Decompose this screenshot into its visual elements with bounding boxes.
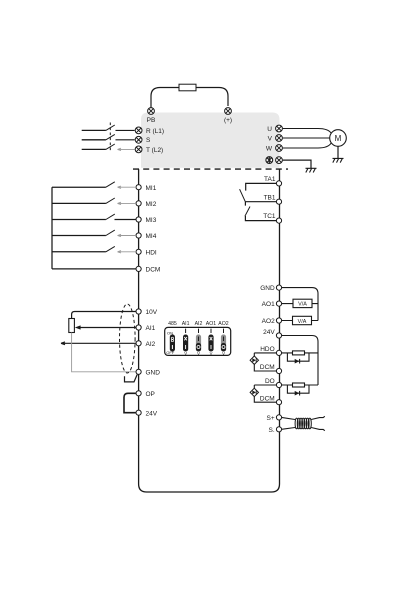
V/A box AO1 [293,299,312,307]
svg-text:AI1: AI1 [146,325,156,332]
svg-text:V: V [197,351,200,356]
diode branch HDO [287,353,309,361]
DIP slider AI1 [183,335,188,352]
optocoupler DO (diamond) [250,388,258,396]
wire W to motor [283,143,331,148]
terminal AO2 [276,318,281,323]
svg-text:PB: PB [147,117,156,124]
terminal S- [276,427,281,432]
svg-text:T (L2): T (L2) [146,147,163,154]
wire pot to GND [72,333,136,372]
wire GND (right) [282,288,319,321]
svg-text:GND: GND [146,369,161,376]
jumper OP to 24V [124,393,136,412]
terminal 10V [136,309,141,314]
ground (drive) [306,168,317,172]
terminal AO1 [276,301,281,306]
svg-text:24V: 24V [263,329,275,336]
wire twisted pair ends [311,416,325,430]
svg-text:AI2: AI2 [146,341,156,348]
wire 10V [72,312,136,319]
DIP slider AO2 [221,335,226,352]
terminal R(L1) [135,127,142,134]
optocoupler HDO (diamond) [250,356,258,364]
svg-text:AO1: AO1 [206,321,216,327]
wire S+ [282,417,296,419]
svg-text:DCM: DCM [146,267,161,274]
breaker blade R [106,125,115,130]
svg-text:AI1: AI1 [182,321,190,327]
terminal MI1 [136,185,141,190]
diode DO [295,391,300,396]
wire MI2 [52,202,106,204]
wire PB to (+) via brake resistor [151,88,228,108]
terminal TA1 [276,181,281,186]
terminal PB [148,108,155,115]
svg-text:TC1: TC1 [263,213,276,220]
svg-text:MI2: MI2 [146,201,157,208]
wire HDO line [254,352,318,354]
svg-text:HDI: HDI [146,249,157,256]
svg-text:DCM: DCM [260,364,275,371]
DIP slider 485 [170,335,175,352]
svg-text:S: S [146,137,151,144]
svg-text:M: M [335,134,342,143]
terminal S [135,136,142,143]
PE symbol [266,157,273,164]
svg-text:R (L1): R (L1) [146,128,164,135]
relay wire TB1 [245,202,276,206]
svg-text:U: U [267,126,272,133]
wire phase S [82,139,106,141]
switch HDI [106,246,115,251]
svg-text:V/A: V/A [298,302,307,308]
wire AI1 with wiper arrow [81,327,136,329]
wire V to motor [283,137,330,139]
svg-text:AO1: AO1 [262,301,275,308]
terminal W [276,145,283,152]
breaker blade S [106,134,115,139]
DIP slider AO1 [208,335,213,352]
svg-text:V: V [268,136,273,143]
wire R to terminal [116,129,135,131]
wire motor to ground [337,146,339,158]
terminal MI2 [136,201,141,206]
motor M [330,130,347,147]
resistor HDO load [293,351,305,355]
terminal HDI [136,249,141,254]
svg-text:MI1: MI1 [146,185,157,192]
shield drain wire [125,375,138,382]
relay wire TA1 [246,183,277,190]
terminal AI1 [136,325,141,330]
wire S to terminal [116,139,135,141]
breaker blade T [106,144,115,149]
wire DCM [52,268,136,270]
terminal OP [136,391,141,396]
relay wire TC1 [245,216,276,221]
wire phase R [82,129,106,131]
terminal GND [136,369,141,374]
wire MI4 [52,235,106,237]
wire DO to DCM via opto [254,385,276,402]
switch MI4 [106,230,115,235]
wire MI3 [52,219,106,221]
diode branch DO [287,385,309,393]
terminal DCM (1) [276,368,281,373]
switch MI3 [106,214,115,219]
svg-text:W: W [266,146,273,153]
wire phase T [82,148,106,150]
svg-text:10V: 10V [146,309,158,316]
V/A box AO2 [293,316,312,324]
wire PE to ground [283,160,311,168]
terminal 24V (left) [136,410,141,415]
terminal T(L2) [135,146,142,153]
terminal MI4 [136,233,141,238]
wire U to motor [283,129,331,134]
wire 24V rail [282,336,319,386]
terminal GND (right) [276,285,281,290]
DIP switch block frame [165,327,231,355]
svg-text:V/A: V/A [298,319,307,325]
svg-text:V: V [184,351,187,356]
wire AO1 [282,303,319,305]
svg-text:TB1: TB1 [264,194,276,201]
terminal 24V (right) [276,333,281,338]
diode HDO [295,359,300,364]
svg-text:OP: OP [146,391,155,398]
control section border [133,168,288,170]
wire AO2 [282,320,319,322]
terminal S+ [276,415,281,420]
ground (motor) [333,158,344,162]
power section body [141,113,280,168]
DIP ticks [186,329,224,333]
cable shield (dashed ellipse) [120,304,136,373]
switch MI2 [106,198,115,203]
terminal PE [276,157,283,164]
wire MI1 [52,186,106,188]
svg-text:DO: DO [265,378,275,385]
potentiometer [69,319,75,333]
terminal (+) [225,108,232,115]
relay blade TB1-TC1 [245,207,250,217]
wire S- [282,428,296,430]
svg-text:S+: S+ [267,415,275,422]
wire HDI [52,251,106,253]
resistor DO load [293,383,305,387]
terminal U [276,125,283,132]
terminal V [276,135,283,142]
svg-text:AI2: AI2 [195,321,203,327]
wire AI2 [61,342,136,345]
svg-text:AO2: AO2 [218,321,228,327]
wire HDO to DCM via opto [254,353,276,371]
breaker linkage (dashed) [109,123,111,153]
svg-text:24V: 24V [146,410,158,417]
wire T to terminal (light) [118,148,135,150]
svg-text:485: 485 [168,321,177,327]
relay blade TA1-TB1 [240,189,246,201]
DIP slider AI2 [196,335,201,352]
switch MI1 [106,182,115,187]
svg-text:(+): (+) [224,117,232,124]
svg-text:DCM: DCM [260,395,275,402]
twisted pair coil [295,418,311,429]
terminal DCM [136,266,141,271]
svg-text:HDO: HDO [260,346,274,353]
terminal TB1 [276,199,281,204]
terminal AI2 [136,341,141,346]
svg-text:AO2: AO2 [262,318,275,325]
brake resistor [179,84,196,91]
terminal HDO [276,350,281,355]
terminal TC1 [276,218,281,223]
svg-text:TA1: TA1 [264,176,276,183]
svg-text:S.: S. [269,427,275,434]
wire DO line [254,384,318,386]
svg-text:MI4: MI4 [146,233,157,240]
svg-text:MI3: MI3 [146,217,157,224]
svg-text:V: V [210,351,213,356]
terminal MI3 [136,217,141,222]
svg-text:V: V [222,351,225,356]
svg-text:GND: GND [260,285,275,292]
terminal DO [276,382,281,387]
terminal DCM (2) [276,400,281,405]
digital common wire [51,187,53,269]
